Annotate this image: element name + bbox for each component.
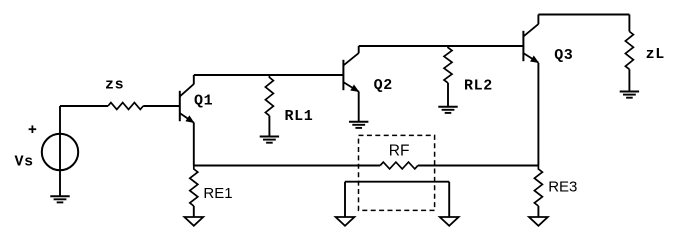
resistor zL xyxy=(625,32,633,70)
wire Q2 emitter leg xyxy=(358,91,360,121)
wire lower horizontal xyxy=(345,181,449,183)
wire Q1 collector leg xyxy=(193,75,195,84)
resistor RL1 xyxy=(265,75,273,116)
svg-text:RF: RF xyxy=(389,143,410,160)
ground (earth) xyxy=(438,107,457,113)
ground (arrow) xyxy=(184,217,203,226)
dashed feedback network box xyxy=(359,135,435,210)
wire Vs to zs xyxy=(60,105,108,107)
resistor RE3 xyxy=(534,166,542,207)
resistor RF xyxy=(380,162,418,169)
ground (earth) xyxy=(50,196,69,202)
ground (earth) xyxy=(620,92,639,98)
svg-text:zs: zs xyxy=(105,77,124,94)
transistor Q1 xyxy=(180,84,194,123)
wire Vs vertical xyxy=(59,106,61,196)
transistor Q3 xyxy=(523,24,538,63)
wire RE1 to ground xyxy=(193,206,195,217)
wire zL to ground xyxy=(628,69,630,91)
wire RE3 to ground xyxy=(537,206,539,217)
ground (arrow) xyxy=(440,217,459,226)
transistor Q2 xyxy=(343,53,358,92)
ground (earth) xyxy=(260,137,279,143)
wire Q1 emitter leg xyxy=(193,122,195,165)
wire lower-left ground drop xyxy=(344,182,346,217)
wire feedback left segment xyxy=(194,165,380,167)
resistor zs xyxy=(108,103,143,110)
wire zs to Q1 base xyxy=(143,105,180,107)
svg-text:RE3: RE3 xyxy=(548,179,577,196)
wire Q3 emitter leg xyxy=(537,63,539,166)
svg-text:Q3: Q3 xyxy=(554,47,573,64)
wire lower-right ground drop xyxy=(448,182,450,217)
wire RL1 to ground xyxy=(268,116,270,137)
wire feedback right segment xyxy=(418,165,539,167)
svg-text:Vs: Vs xyxy=(15,154,34,171)
wire RL2 to ground xyxy=(447,83,449,107)
resistor RL2 xyxy=(444,46,452,83)
svg-text:Q1: Q1 xyxy=(194,93,213,110)
wire rail Q3 collector to zL xyxy=(538,14,629,16)
wire Q2 collector leg xyxy=(358,46,360,53)
voltage source Vs xyxy=(42,134,78,170)
ground (arrow) xyxy=(529,217,548,226)
ground (earth) xyxy=(349,122,368,128)
svg-text:Q2: Q2 xyxy=(374,77,393,94)
svg-text:RE1: RE1 xyxy=(203,185,232,202)
svg-text:RL2: RL2 xyxy=(464,77,493,94)
wire rail Q1 collector to Q2 base xyxy=(194,74,344,76)
wire Q3 collector leg xyxy=(537,15,539,25)
wire rail Q2 collector to Q3 base xyxy=(359,45,524,47)
plus sign xyxy=(29,125,37,133)
wire zL top xyxy=(628,15,630,32)
svg-text:zL: zL xyxy=(646,46,665,63)
resistor RE1 xyxy=(190,166,198,207)
ground (arrow) xyxy=(336,217,355,226)
svg-text:RL1: RL1 xyxy=(285,108,314,125)
